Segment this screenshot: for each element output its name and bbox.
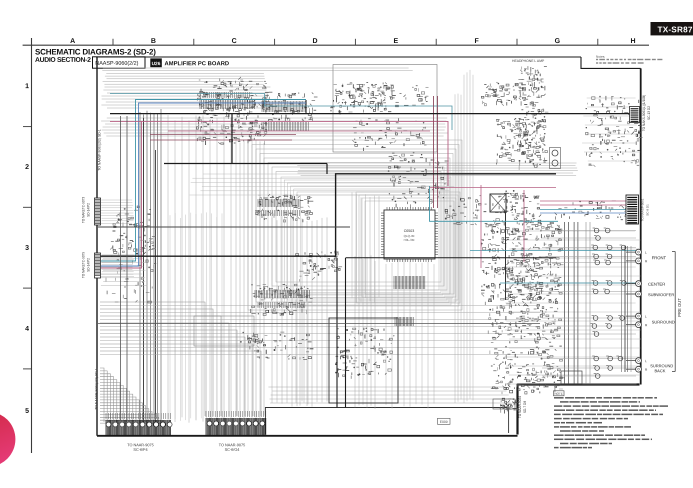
svg-text:NAASP-9060(2/2): NAASP-9060(2/2) bbox=[95, 61, 138, 67]
svg-text:SUBWOOFER: SUBWOOFER bbox=[648, 292, 674, 297]
svg-text:L: L bbox=[645, 359, 647, 363]
svg-text:SC-13 D2: SC-13 D2 bbox=[647, 106, 651, 120]
svg-text:TO NAAR-9075: TO NAAR-9075 bbox=[219, 443, 246, 447]
svg-text:NOTE: NOTE bbox=[555, 392, 563, 396]
svg-text:AUDIO SECTION-2: AUDIO SECTION-2 bbox=[35, 57, 91, 64]
svg-text:AMPLIFIER PC BOARD: AMPLIFIER PC BOARD bbox=[164, 61, 229, 67]
svg-text:C6503: C6503 bbox=[404, 229, 415, 233]
svg-text:SURROUND: SURROUND bbox=[652, 320, 675, 325]
svg-text:SD-14/P2: SD-14/P2 bbox=[87, 258, 91, 272]
svg-text:TX-SR87: TX-SR87 bbox=[657, 25, 692, 34]
svg-text:1: 1 bbox=[25, 83, 29, 90]
svg-text:L: L bbox=[645, 251, 647, 255]
svg-text:H9L-3M: H9L-3M bbox=[404, 238, 415, 242]
svg-text:L: L bbox=[645, 315, 647, 319]
svg-text:E009: E009 bbox=[440, 420, 448, 424]
svg-text:TO NAAR-9054: TO NAAR-9054 bbox=[518, 396, 522, 418]
svg-text:U26: U26 bbox=[152, 61, 161, 67]
svg-text:E: E bbox=[393, 38, 398, 45]
svg-text:SC-9 D1: SC-9 D1 bbox=[646, 204, 650, 216]
svg-text:4: 4 bbox=[25, 326, 29, 333]
svg-text:D: D bbox=[312, 38, 317, 45]
svg-text:TO NAAR-9075: TO NAAR-9075 bbox=[127, 443, 154, 447]
svg-text:HEADPHONE L AMP: HEADPHONE L AMP bbox=[512, 59, 545, 63]
svg-text:5: 5 bbox=[25, 408, 29, 415]
svg-text:PRE OUT: PRE OUT bbox=[677, 298, 682, 317]
svg-text:TO NAKETC-9079: TO NAKETC-9079 bbox=[82, 252, 86, 279]
svg-text:TO NAKS-9061(L)(1/10B): TO NAKS-9061(L)(1/10B) bbox=[642, 95, 646, 131]
svg-text:F: F bbox=[474, 38, 479, 45]
svg-text:A: A bbox=[70, 38, 75, 45]
svg-text:2: 2 bbox=[25, 164, 29, 171]
svg-text:H: H bbox=[630, 38, 635, 45]
svg-text:SD-14/P2: SD-14/P2 bbox=[87, 203, 91, 217]
svg-text:SC-6/F4: SC-6/F4 bbox=[133, 448, 147, 452]
svg-text:TO NAASP-9060(2/2) SD-1: TO NAASP-9060(2/2) SD-1 bbox=[98, 129, 102, 171]
svg-text:TO NAASP-9061: TO NAASP-9061 bbox=[641, 198, 645, 221]
svg-text:3: 3 bbox=[25, 245, 29, 252]
svg-text:BACK: BACK bbox=[654, 368, 665, 373]
svg-text:TO NAKETC-9073: TO NAKETC-9073 bbox=[82, 197, 86, 224]
svg-text:C: C bbox=[232, 38, 237, 45]
svg-text:SC-6/G4: SC-6/G4 bbox=[225, 448, 240, 452]
svg-text:FRONT: FRONT bbox=[652, 255, 667, 260]
svg-text:CENTER: CENTER bbox=[648, 282, 665, 287]
svg-text:TO NAASP-9060(1/2) SD-1: TO NAASP-9060(1/2) SD-1 bbox=[95, 368, 99, 410]
svg-text:B: B bbox=[151, 38, 156, 45]
svg-text:SD-7 D8: SD-7 D8 bbox=[523, 401, 527, 413]
svg-text:Notes:: Notes: bbox=[596, 55, 605, 59]
svg-text:G: G bbox=[555, 38, 561, 45]
svg-text:SCHEMATIC DIAGRAMS-2 (SD-2): SCHEMATIC DIAGRAMS-2 (SD-2) bbox=[35, 48, 156, 57]
